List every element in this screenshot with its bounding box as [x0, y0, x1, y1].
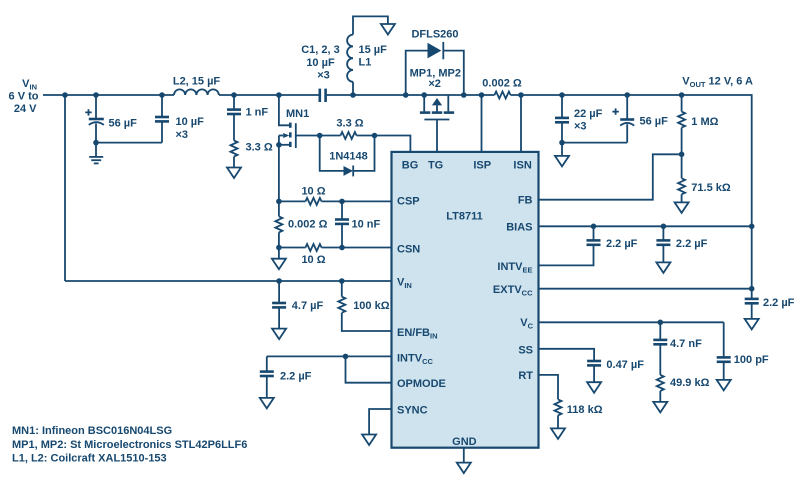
svg-text:OPMODE: OPMODE — [397, 378, 446, 390]
svg-text:15 µF: 15 µF — [359, 44, 388, 56]
svg-text:CSP: CSP — [397, 196, 420, 208]
op-amp U1 LT8711 IC body — [392, 152, 539, 448]
wire cap bottoms — [96, 142, 162, 144]
node A input junction — [62, 92, 68, 98]
resistor 10 ohm CSP row — [279, 200, 306, 202]
svg-text:FB: FB — [518, 195, 533, 207]
capacitor 2.2uF BIAS b — [661, 224, 667, 230]
svg-text:TG: TG — [428, 159, 443, 171]
resistor 0.002 ohm rail — [495, 92, 511, 99]
svg-text:2.2 µF: 2.2 µF — [606, 238, 638, 250]
svg-text:×2: ×2 — [428, 78, 441, 90]
svg-text:3.3 Ω: 3.3 Ω — [246, 141, 273, 153]
node cap bottom junction — [93, 140, 99, 146]
capacitor 56uF input (polarized) — [93, 92, 99, 98]
wire OPMODE link — [346, 356, 392, 382]
svg-text:56 µF: 56 µF — [640, 116, 669, 128]
resistor 0.002 ohm sense — [275, 216, 282, 232]
resistor 100k — [341, 281, 343, 297]
capacitor 100pF — [723, 322, 725, 357]
wire VC row — [539, 321, 724, 323]
ground top of L1 — [353, 16, 388, 34]
resistor 49.9k — [659, 344, 661, 375]
resistor 71.5k — [681, 154, 683, 178]
svg-text:ISP: ISP — [473, 159, 491, 171]
capacitor 2.2uF INTVCC — [266, 356, 268, 371]
svg-text:100 kΩ: 100 kΩ — [353, 300, 390, 312]
capacitor 0.47uF — [587, 360, 601, 363]
svg-text:49.9 kΩ: 49.9 kΩ — [670, 377, 710, 389]
svg-text:4.7 µF: 4.7 µF — [292, 300, 324, 312]
node 22uF bottom — [559, 140, 565, 146]
svg-text:GND: GND — [452, 436, 477, 448]
inductor L1 — [350, 92, 356, 98]
svg-text:CSN: CSN — [397, 243, 420, 255]
svg-text:×3: ×3 — [574, 121, 587, 133]
svg-text:1N4148: 1N4148 — [329, 151, 368, 163]
wire rail L2 to C1 — [219, 94, 320, 96]
svg-text:10 Ω: 10 Ω — [301, 254, 325, 266]
ground below 4.7uF — [272, 329, 286, 340]
capacitor 2.2uF BIAS a — [591, 224, 597, 230]
resistor 1M — [679, 92, 685, 98]
wire ISN leg — [520, 95, 522, 152]
svg-text:L1: L1 — [359, 57, 372, 69]
ground below 71.5k — [681, 194, 683, 202]
wire rail to output — [511, 95, 752, 289]
wire input rail left — [43, 94, 174, 96]
wire out cap bottoms — [562, 142, 627, 144]
svg-text:BG: BG — [402, 159, 419, 171]
ground below 2.2uF b — [662, 245, 664, 263]
svg-text:ISN: ISN — [513, 159, 531, 171]
svg-text:L1, L2: Coilcraft XAL1510-153: L1, L2: Coilcraft XAL1510-153 — [12, 453, 167, 465]
svg-text:1 MΩ: 1 MΩ — [691, 116, 718, 128]
ground below 118k — [557, 415, 559, 428]
svg-text:MP1, MP2: St Microelectronics: MP1, MP2: St Microelectronics STL42P6LLF… — [12, 439, 247, 451]
ground below 100pF — [723, 362, 725, 380]
capacitor 1nF — [231, 92, 237, 98]
wire left vertical to VIN pin row — [64, 95, 66, 281]
svg-text:BIAS: BIAS — [506, 222, 532, 234]
svg-text:10 Ω: 10 Ω — [301, 185, 325, 197]
capacitor 2.2uF EXTVCC — [751, 289, 753, 299]
resistor 118k — [555, 399, 562, 415]
resistor 3.3 ohm vertical — [231, 141, 238, 157]
svg-text:10 µF: 10 µF — [306, 57, 335, 69]
wire SYNC row — [369, 409, 391, 435]
svg-text:118 kΩ: 118 kΩ — [567, 404, 603, 416]
svg-text:MN1: Infineon BSC016N04LSG: MN1: Infineon BSC016N04LSG — [12, 425, 172, 437]
capacitor 22uF x3 — [559, 92, 565, 98]
svg-text:71.5 kΩ: 71.5 kΩ — [691, 182, 731, 194]
svg-text:100 pF: 100 pF — [734, 354, 769, 366]
svg-text:1 nF: 1 nF — [246, 106, 269, 118]
svg-text:C1, 2, 3: C1, 2, 3 — [301, 44, 340, 56]
svg-text:SYNC: SYNC — [397, 405, 428, 417]
capacitor 4.7uF — [278, 281, 280, 303]
wire SS row — [539, 349, 595, 361]
ground below CSN — [278, 248, 280, 259]
svg-text:×3: ×3 — [176, 129, 189, 141]
wire MN1 gate — [296, 135, 341, 137]
svg-text:0.002 Ω: 0.002 Ω — [288, 219, 328, 231]
wire INTVCC row — [267, 355, 392, 357]
capacitor 56uF output (polarized) — [624, 92, 630, 98]
svg-text:22 µF: 22 µF — [574, 108, 603, 120]
wire rail C1 to PMOS area — [326, 94, 495, 96]
svg-text:10 nF: 10 nF — [352, 219, 381, 231]
wire CSN row — [322, 247, 392, 249]
svg-text:6 V to: 6 V to — [9, 91, 39, 103]
ground earth input — [95, 143, 97, 157]
ground below 2.2uF INTVCC — [260, 398, 274, 409]
ground GND pin — [463, 448, 465, 463]
wire TG gate lead — [436, 120, 438, 152]
svg-text:2.2 µF: 2.2 µF — [763, 297, 795, 309]
svg-text:SS: SS — [518, 344, 533, 356]
wire MN1 source down — [278, 136, 280, 217]
wire EXTVCC row — [539, 288, 752, 290]
wire 100k to EN/FBIN — [342, 313, 392, 331]
svg-text:10 µF: 10 µF — [176, 116, 205, 128]
wire gate to BG — [357, 136, 411, 152]
svg-text:4.7 nF: 4.7 nF — [670, 338, 702, 350]
ground below 3.3 ohm — [233, 157, 235, 168]
ground below 0.47uF — [593, 365, 595, 382]
wire VIN row — [65, 280, 392, 282]
svg-text:24 V: 24 V — [14, 103, 37, 115]
svg-text:2.2 µF: 2.2 µF — [280, 371, 312, 383]
wire RT row — [539, 375, 559, 400]
svg-text:2.2 µF: 2.2 µF — [676, 238, 708, 250]
svg-text:3.3 Ω: 3.3 Ω — [336, 118, 363, 130]
svg-text:DFLS260: DFLS260 — [411, 28, 458, 40]
svg-text:LT8711: LT8711 — [446, 211, 483, 223]
capacitor 10nF — [341, 201, 343, 219]
ground SYNC — [362, 435, 376, 446]
ground below 22uF — [561, 143, 563, 156]
wire CSP row — [322, 200, 392, 202]
ground below 2.2uF EXTVCC — [745, 319, 759, 330]
capacitor 4.7nF — [659, 322, 661, 340]
svg-text:RT: RT — [518, 370, 533, 382]
svg-text:0.002 Ω: 0.002 Ω — [482, 78, 522, 90]
wire BIAS row — [539, 225, 752, 227]
ground below 49.9k — [659, 391, 661, 402]
svg-text:L2, 15 µF: L2, 15 µF — [173, 76, 221, 88]
svg-text:MN1: MN1 — [286, 108, 309, 120]
capacitor 10uF x3 — [159, 92, 165, 98]
resistor 10 ohm CSN row — [279, 247, 306, 249]
svg-text:56 µF: 56 µF — [109, 118, 138, 130]
svg-text:×3: ×3 — [317, 70, 330, 82]
wire FB to divider — [539, 154, 682, 199]
resistor 3.3 ohm gate — [341, 132, 357, 139]
wire ISP leg — [481, 95, 483, 152]
wire INTVEE link — [539, 245, 594, 266]
svg-text:0.47 µF: 0.47 µF — [606, 359, 644, 371]
